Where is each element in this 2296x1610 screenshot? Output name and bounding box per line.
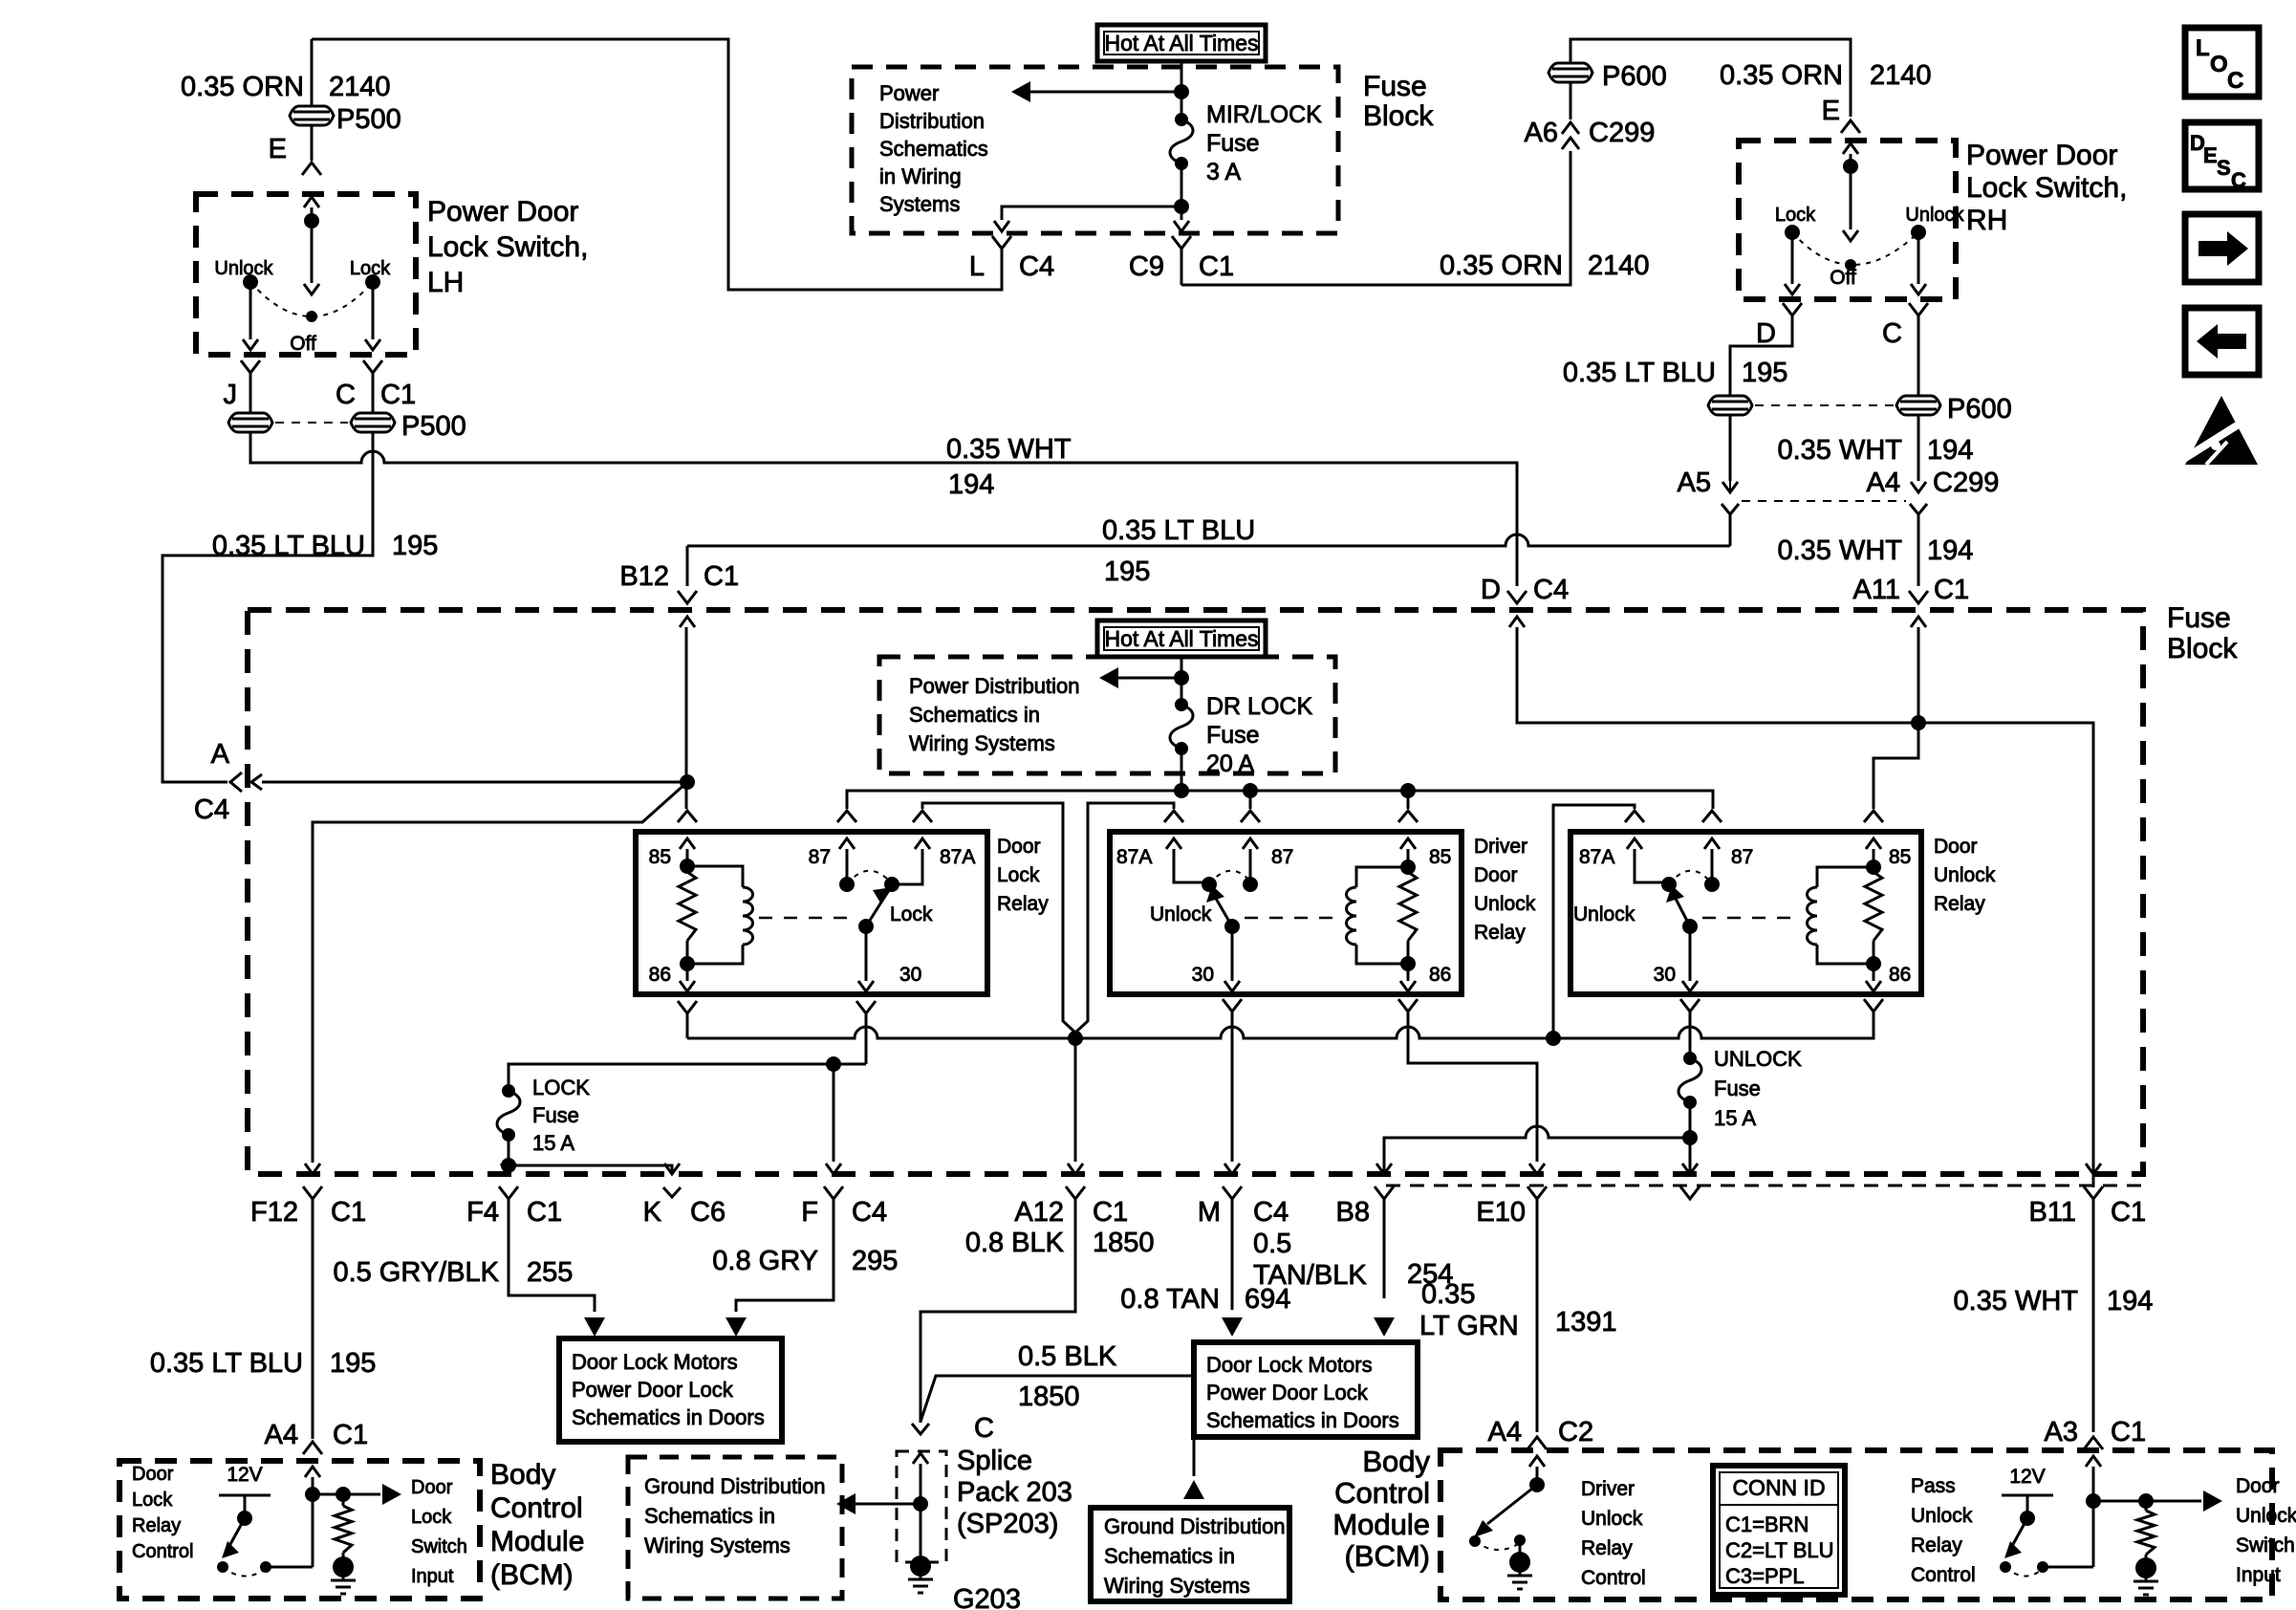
wire DR LOCK fuse to bus bbox=[1180, 749, 1183, 791]
svg-text:C1=BRN: C1=BRN bbox=[1725, 1512, 1809, 1536]
svg-text:Lock: Lock bbox=[1775, 205, 1816, 226]
arrow to Power Distribution Schematics bbox=[1030, 91, 1181, 94]
relay3 resistor bbox=[1873, 867, 1875, 872]
Hot At All Times box (second) bbox=[1097, 620, 1266, 657]
relay1 resistor bbox=[686, 866, 689, 872]
wire from P600 C down to C299 A4 bbox=[1917, 415, 1920, 481]
svg-text:Door Lock Motors: Door Lock Motors bbox=[1206, 1353, 1373, 1377]
svg-text:F12: F12 bbox=[250, 1197, 298, 1228]
svg-text:0.35 WHT: 0.35 WHT bbox=[1953, 1286, 2078, 1316]
svg-text:Module: Module bbox=[490, 1526, 584, 1557]
svg-text:in Wiring: in Wiring bbox=[879, 164, 962, 188]
svg-text:194: 194 bbox=[2107, 1286, 2153, 1316]
svg-text:C: C bbox=[1882, 318, 1902, 349]
wire UNLOCK fuse output junction bbox=[1689, 1102, 1692, 1138]
svg-text:D: D bbox=[1756, 318, 1776, 349]
right BCM driver unlock entry arrow bbox=[1529, 1456, 1545, 1467]
svg-text:Schematics in: Schematics in bbox=[644, 1504, 775, 1528]
relay1 pin 87 arrow bbox=[839, 838, 855, 849]
svg-text:C9: C9 bbox=[1129, 251, 1164, 282]
svg-text:C299: C299 bbox=[1933, 468, 1999, 498]
svg-text:Schematics in Doors: Schematics in Doors bbox=[572, 1405, 765, 1429]
svg-text:Ground Distribution: Ground Distribution bbox=[1104, 1514, 1286, 1538]
wire bus to driver unlock relay 87 bbox=[1249, 791, 1252, 809]
svg-text:CONN ID: CONN ID bbox=[1732, 1475, 1825, 1500]
svg-text:0.35 LT BLU: 0.35 LT BLU bbox=[212, 531, 365, 561]
svg-text:195: 195 bbox=[392, 531, 438, 561]
wire motor node merge to bus A bbox=[1074, 1033, 1077, 1038]
svg-text:85: 85 bbox=[1889, 846, 1911, 868]
svg-text:C2=LT BLU: C2=LT BLU bbox=[1725, 1538, 1834, 1562]
relay feed bus from DR LOCK fuse bbox=[847, 791, 1713, 809]
svg-text:DR LOCK: DR LOCK bbox=[1206, 693, 1312, 720]
svg-text:Switch: Switch bbox=[411, 1536, 467, 1557]
svg-text:C1: C1 bbox=[1093, 1197, 1128, 1228]
relay2 terminal 87A fork bbox=[1164, 811, 1183, 822]
svg-text:Schematics in: Schematics in bbox=[909, 703, 1040, 727]
svg-text:UNLOCK: UNLOCK bbox=[1714, 1047, 1802, 1071]
svg-text:M: M bbox=[1198, 1197, 1221, 1228]
svg-text:87: 87 bbox=[1731, 846, 1753, 868]
RH switch Lock output arrow bbox=[1791, 232, 1794, 284]
svg-text:Body: Body bbox=[490, 1459, 555, 1490]
wire A3 node to switch input resistor bbox=[2093, 1500, 2146, 1503]
svg-text:Power Door: Power Door bbox=[1966, 140, 2117, 171]
svg-text:S: S bbox=[2217, 156, 2231, 180]
svg-text:0.5: 0.5 bbox=[1253, 1229, 1291, 1259]
driver unlock relay control switch bbox=[1529, 1477, 1545, 1492]
RH switch Unlock output arrow bbox=[1917, 232, 1920, 284]
svg-text:A3: A3 bbox=[2045, 1417, 2078, 1447]
relay1 terminal 85 fork bbox=[678, 811, 697, 822]
Power Door Lock Switch RH dashed box bbox=[1739, 141, 1956, 299]
svg-text:Wiring Systems: Wiring Systems bbox=[1104, 1574, 1250, 1598]
svg-text:D: D bbox=[1481, 575, 1501, 605]
wire B12 down to relay coil 85 bbox=[680, 617, 695, 627]
Body Control Module left dashed box bbox=[119, 1461, 480, 1599]
DR LOCK fuse dashed box bbox=[879, 657, 1335, 773]
wire ORN 2140 from fuse block C9 to RH switch E bbox=[1181, 39, 1851, 285]
Power Door Lock Switch LH dashed box bbox=[196, 194, 416, 355]
svg-text:Door: Door bbox=[997, 836, 1041, 858]
junction dot above C9 terminal bbox=[1174, 199, 1189, 214]
terminal C of RH switch bbox=[1909, 303, 1928, 315]
relay1 switch dashed arc bbox=[847, 871, 890, 884]
terminal A11 C1 fork bbox=[1909, 591, 1928, 603]
svg-text:P600: P600 bbox=[1602, 61, 1667, 92]
svg-text:LT GRN: LT GRN bbox=[1419, 1311, 1519, 1341]
svg-text:Driver: Driver bbox=[1474, 836, 1527, 858]
svg-text:C4: C4 bbox=[852, 1197, 887, 1228]
wire splice to ground G203 bbox=[920, 1504, 922, 1556]
UNLOCK fuse feed from relay3 30 bbox=[1689, 1056, 1692, 1058]
connector grommet P500 pair (J side) bbox=[228, 413, 272, 432]
relay2 terminal 87 fork bbox=[1241, 811, 1260, 822]
svg-text:B8: B8 bbox=[1336, 1197, 1370, 1228]
svg-text:Schematics in: Schematics in bbox=[1104, 1544, 1235, 1568]
svg-text:L: L bbox=[2196, 35, 2210, 61]
Door Lock Motors reference box (right) bbox=[1194, 1342, 1418, 1437]
svg-text:F4: F4 bbox=[466, 1197, 499, 1228]
svg-text:C: C bbox=[974, 1413, 994, 1444]
wire LT BLU 195 from B12 to A5 (with hop over D wire) bbox=[687, 534, 1730, 546]
svg-text:Lock: Lock bbox=[890, 903, 933, 925]
svg-text:0.35 LT BLU: 0.35 LT BLU bbox=[150, 1348, 303, 1379]
junction dot at A11/D node bbox=[1911, 715, 1926, 730]
svg-text:LH: LH bbox=[427, 267, 464, 298]
RH switch Off dashed arc and dot bbox=[1792, 232, 1918, 265]
Fuse Block main dashed box bbox=[248, 610, 2143, 1174]
svg-text:Systems: Systems bbox=[879, 192, 960, 216]
svg-text:C4: C4 bbox=[1253, 1197, 1289, 1228]
relay2 switch arm Unlock bbox=[1224, 919, 1240, 934]
svg-text:0.35 WHT: 0.35 WHT bbox=[1777, 535, 1902, 566]
relay3 coil bbox=[1817, 867, 1874, 887]
wire A12 node down to terminal A12 bbox=[1074, 1038, 1077, 1162]
svg-text:Control: Control bbox=[1911, 1564, 1976, 1586]
relay3 pin 30 arrow bbox=[1689, 926, 1692, 981]
svg-text:Relay: Relay bbox=[1934, 893, 1985, 915]
svg-text:(BCM): (BCM) bbox=[1344, 1539, 1430, 1573]
connector grommet P600 pair (D side) bbox=[1708, 396, 1752, 415]
wire A11 down to junction bbox=[1911, 617, 1926, 627]
arrow to Power Distribution Schematics (second) bbox=[1118, 677, 1181, 680]
dashed link between P500 grommets bbox=[275, 422, 348, 424]
terminal J of LH switch bbox=[241, 360, 260, 373]
LH switch Lock output arrow bbox=[372, 282, 375, 339]
relay2 coil to switch dashed link bbox=[1245, 917, 1340, 920]
svg-text:2140: 2140 bbox=[1870, 60, 1932, 91]
svg-text:Wiring Systems: Wiring Systems bbox=[644, 1534, 791, 1557]
svg-text:C1: C1 bbox=[380, 380, 416, 410]
svg-text:0.5 BLK: 0.5 BLK bbox=[1018, 1341, 1117, 1372]
Hot At All Times box (top) bbox=[1097, 25, 1266, 61]
relay2 terminal 86 fork bbox=[1398, 999, 1418, 1012]
next arrow box bbox=[2185, 214, 2259, 282]
wire LOCK fuse output bbox=[508, 1135, 510, 1165]
left BCM 12V switch bbox=[219, 1494, 271, 1497]
junction dot at second power distribution branch bbox=[1174, 670, 1189, 685]
terminal A3 C1 into right BCM bbox=[2084, 1437, 2103, 1449]
svg-text:Fuse: Fuse bbox=[1206, 722, 1260, 749]
dashed link C299 bbox=[1742, 500, 1906, 502]
junction dot A3 node bbox=[2086, 1493, 2101, 1509]
svg-text:A4: A4 bbox=[1867, 468, 1900, 498]
junction dot at power distribution branch bbox=[1174, 84, 1189, 99]
relay3 switch arm Unlock bbox=[1682, 919, 1698, 934]
arrow into fuse block edge at C9 bbox=[1180, 207, 1183, 220]
svg-text:C4: C4 bbox=[194, 794, 229, 825]
svg-text:0.5 GRY/BLK: 0.5 GRY/BLK bbox=[333, 1257, 499, 1288]
svg-text:85: 85 bbox=[649, 846, 671, 868]
svg-text:(BCM): (BCM) bbox=[490, 1559, 574, 1591]
svg-text:Fuse: Fuse bbox=[1714, 1077, 1761, 1100]
svg-text:0.35 WHT: 0.35 WHT bbox=[946, 434, 1072, 465]
relay3 terminal 85 fork bbox=[1864, 811, 1883, 822]
svg-text:195: 195 bbox=[1104, 556, 1150, 587]
junction dot splice bbox=[913, 1496, 928, 1512]
svg-text:Lock Switch,: Lock Switch, bbox=[1966, 172, 2127, 204]
junction dot left BCM bbox=[305, 1487, 320, 1502]
svg-text:C1: C1 bbox=[331, 1197, 366, 1228]
svg-text:C3=PPL: C3=PPL bbox=[1725, 1564, 1805, 1588]
svg-text:A5: A5 bbox=[1678, 468, 1711, 498]
wire stub to P500 grommet (LH) bbox=[311, 39, 314, 161]
LH switch Off position dashed arc and dot bbox=[250, 282, 373, 316]
svg-text:C4: C4 bbox=[1019, 251, 1054, 282]
relay3 switch dashed arc bbox=[1669, 871, 1710, 884]
connector grommet P600 pair (C side) bbox=[1896, 396, 1940, 415]
terminal F C4 bbox=[826, 1164, 841, 1174]
svg-text:C1: C1 bbox=[2111, 1417, 2146, 1447]
pass unlock relay control switch bbox=[2002, 1494, 2053, 1497]
svg-text:Relay: Relay bbox=[1911, 1534, 1962, 1556]
svg-text:O: O bbox=[2210, 52, 2228, 77]
svg-text:0.35: 0.35 bbox=[1421, 1279, 1475, 1310]
wire 0.5 BLK 1850 from splice to ground distribution reference bbox=[921, 1376, 1194, 1476]
left BCM switch input resistor bbox=[313, 1493, 343, 1496]
svg-text:Schematics in Doors: Schematics in Doors bbox=[1206, 1408, 1399, 1432]
DR LOCK fuse element bbox=[1180, 678, 1183, 705]
svg-text:Wiring Systems: Wiring Systems bbox=[909, 731, 1055, 755]
terminal F12 C1 bbox=[305, 1164, 320, 1174]
svg-text:Input: Input bbox=[2236, 1564, 2281, 1586]
svg-text:Control: Control bbox=[490, 1492, 583, 1524]
svg-text:Hot At All Times: Hot At All Times bbox=[1104, 626, 1258, 651]
right BCM A3 entry arrow bbox=[2086, 1456, 2101, 1467]
svg-text:L: L bbox=[969, 251, 985, 282]
svg-text:255: 255 bbox=[527, 1257, 573, 1288]
svg-text:Module: Module bbox=[1332, 1508, 1430, 1541]
dashed link between P600 grommets bbox=[1755, 404, 1894, 406]
relay1 coil to switch dashed link bbox=[759, 917, 856, 920]
Door Lock Motors reference box (left) bbox=[559, 1338, 782, 1442]
svg-text:195: 195 bbox=[1742, 358, 1787, 388]
svg-text:C1: C1 bbox=[333, 1420, 368, 1450]
wire WHT 194 from J to fuse block D (with hop over C wire) bbox=[250, 432, 1517, 586]
svg-text:Unlock: Unlock bbox=[1905, 205, 1964, 226]
svg-text:Switch: Switch bbox=[2236, 1534, 2295, 1556]
terminal chevron E of RH switch bbox=[1841, 120, 1860, 133]
svg-text:194: 194 bbox=[948, 469, 994, 500]
arrow entering at A bbox=[251, 774, 262, 790]
svg-text:Lock: Lock bbox=[132, 1490, 173, 1511]
relay2 pin 87A arrow bbox=[1166, 838, 1181, 849]
arrow from ground distribution to splice bbox=[836, 1493, 856, 1514]
terminal F4 C1 bbox=[499, 1186, 518, 1199]
svg-text:B12: B12 bbox=[619, 561, 669, 592]
door unlock switch input output arrow bbox=[2146, 1500, 2201, 1503]
svg-text:C1: C1 bbox=[527, 1197, 562, 1228]
junction dot at F branch bbox=[826, 1056, 841, 1072]
feed wire from second Hot box bbox=[1180, 657, 1183, 678]
svg-text:86: 86 bbox=[1889, 964, 1911, 986]
wire junction to B11 drop bbox=[1918, 723, 2093, 1187]
svg-text:0.8 BLK: 0.8 BLK bbox=[965, 1228, 1065, 1258]
terminal D C4 fork bbox=[1507, 591, 1527, 603]
Door Unlock Relay box bbox=[1570, 832, 1921, 994]
relay1 pin 30 arrow bbox=[865, 926, 868, 981]
svg-text:Lock: Lock bbox=[997, 864, 1040, 886]
C299 connector forks A4 bbox=[1910, 504, 1927, 514]
svg-text:Control: Control bbox=[1334, 1476, 1430, 1510]
svg-text:Splice: Splice bbox=[957, 1446, 1032, 1476]
ground G203 bbox=[910, 1556, 931, 1577]
svg-text:Relay: Relay bbox=[997, 893, 1049, 915]
svg-text:Lock: Lock bbox=[411, 1507, 452, 1528]
svg-text:Door: Door bbox=[132, 1464, 174, 1485]
svg-text:LOCK: LOCK bbox=[532, 1076, 590, 1099]
svg-text:694: 694 bbox=[1245, 1284, 1290, 1315]
left BCM entry arrow bbox=[305, 1467, 320, 1477]
svg-text:Lock Switch,: Lock Switch, bbox=[427, 231, 588, 263]
svg-text:2140: 2140 bbox=[329, 72, 391, 102]
svg-text:E: E bbox=[2203, 143, 2218, 167]
svg-text:C: C bbox=[2227, 68, 2243, 94]
ESD warning symbol bbox=[2185, 396, 2258, 465]
svg-text:Unlock: Unlock bbox=[1474, 893, 1536, 915]
left BCM resistor ground bbox=[333, 1556, 354, 1577]
relay2 terminal 85 fork bbox=[1398, 811, 1418, 822]
svg-text:Unlock: Unlock bbox=[214, 258, 273, 279]
junction dot below B12 bbox=[680, 774, 695, 790]
connector grommet P600 (top right) bbox=[1549, 63, 1592, 82]
svg-text:Fuse: Fuse bbox=[532, 1103, 579, 1127]
svg-text:A11: A11 bbox=[1853, 575, 1900, 605]
Ground Distribution dashed reference box bbox=[628, 1457, 842, 1599]
svg-text:C: C bbox=[2231, 168, 2246, 192]
pass-through terminal A6 C299 bbox=[1562, 122, 1579, 134]
junction dot LOCK fuse output bbox=[501, 1158, 516, 1173]
svg-text:Input: Input bbox=[411, 1566, 454, 1587]
DESC navigation box bbox=[2185, 122, 2259, 189]
junction dot bus at driver unlock relay 87 bbox=[1243, 783, 1258, 798]
C299 connector forks A5 bbox=[1722, 504, 1739, 514]
svg-text:0.35 LT BLU: 0.35 LT BLU bbox=[1563, 358, 1716, 388]
svg-text:3 A: 3 A bbox=[1206, 159, 1241, 185]
svg-text:194: 194 bbox=[1927, 535, 1973, 566]
svg-text:G203: G203 bbox=[953, 1584, 1021, 1610]
terminal E10 bbox=[1529, 1164, 1545, 1174]
thin connector row dashed line bbox=[1386, 1185, 2143, 1187]
CONN ID legend box bbox=[1713, 1466, 1845, 1595]
svg-text:Door: Door bbox=[1474, 864, 1518, 886]
relay2 resistor bbox=[1407, 867, 1410, 872]
svg-text:A12: A12 bbox=[1014, 1197, 1064, 1228]
junction dot UNLOCK fuse output bbox=[1682, 1130, 1698, 1145]
terminal B12 C1 fork bbox=[678, 591, 697, 603]
terminal A C4 fork on left edge bbox=[230, 772, 242, 792]
junction dot bus at fuse bbox=[1174, 783, 1189, 798]
relay1 terminal 30 fork bbox=[856, 1001, 876, 1013]
svg-text:Pack 203: Pack 203 bbox=[957, 1477, 1072, 1508]
svg-text:0.35 LT BLU: 0.35 LT BLU bbox=[1102, 515, 1255, 546]
relay1 switch pivot dot and link to 87A bbox=[884, 877, 899, 892]
svg-text:Schematics: Schematics bbox=[879, 137, 988, 161]
wire relay1 87A up over to motor node bbox=[922, 803, 1075, 1033]
svg-text:C1: C1 bbox=[704, 561, 739, 592]
splice pack entry arrow bbox=[913, 1453, 928, 1464]
Body Control Module right dashed box bbox=[1440, 1450, 2272, 1599]
svg-text:Power Distribution: Power Distribution bbox=[909, 674, 1080, 698]
terminal B11 C1 bbox=[2086, 1164, 2101, 1174]
terminal C of LH switch bbox=[363, 360, 382, 373]
Door Lock Relay box bbox=[636, 832, 987, 994]
wire relay3 87A up over to bus A junction bbox=[1553, 805, 1635, 1038]
terminal D of RH switch bbox=[1783, 303, 1802, 315]
svg-text:Block: Block bbox=[1363, 100, 1434, 132]
svg-text:B11: B11 bbox=[2029, 1197, 2076, 1228]
svg-text:Door Lock Motors: Door Lock Motors bbox=[572, 1350, 738, 1374]
terminal L C4 fork bbox=[992, 236, 1011, 249]
svg-text:87A: 87A bbox=[1579, 846, 1614, 868]
Fuse Block dashed box (top) bbox=[852, 67, 1338, 233]
svg-text:2140: 2140 bbox=[1588, 250, 1650, 281]
svg-text:Unlock: Unlock bbox=[1150, 903, 1212, 925]
relay1 terminal 87A fork bbox=[913, 811, 932, 822]
svg-text:Pass: Pass bbox=[1911, 1475, 1956, 1497]
svg-text:295: 295 bbox=[852, 1246, 898, 1276]
svg-text:Body: Body bbox=[1362, 1445, 1430, 1478]
door unlock switch input ground bbox=[2135, 1557, 2156, 1578]
wire from fuse to junction bbox=[1180, 163, 1183, 207]
svg-text:C2: C2 bbox=[1558, 1417, 1593, 1447]
svg-text:12V: 12V bbox=[2009, 1466, 2045, 1488]
svg-text:A6: A6 bbox=[1525, 118, 1558, 148]
wire relay1 30 to LOCK fuse and terminal F bbox=[509, 1064, 866, 1091]
relay3 pin 87A arrow bbox=[1627, 838, 1642, 849]
Ground Distribution solid reference box bbox=[1091, 1508, 1289, 1601]
relay2 pin 87 arrow bbox=[1243, 838, 1258, 849]
svg-text:0.35 ORN: 0.35 ORN bbox=[1720, 60, 1843, 91]
wire from P600 D down to C299 A5 bbox=[1729, 415, 1732, 481]
svg-text:0.35 ORN: 0.35 ORN bbox=[181, 72, 304, 102]
driver unlock relay control ground bbox=[1509, 1552, 1530, 1573]
svg-text:1850: 1850 bbox=[1093, 1228, 1155, 1258]
jog from junction down to door unlock relay 85 bbox=[1874, 723, 1918, 809]
wire A5 down to LT BLU 195 run bbox=[1729, 514, 1732, 546]
svg-text:K: K bbox=[643, 1197, 662, 1228]
svg-text:Off: Off bbox=[1830, 267, 1856, 289]
previous arrow box bbox=[2185, 308, 2259, 375]
svg-text:E: E bbox=[1822, 96, 1840, 126]
relay2 pin 86 arrow bbox=[1407, 964, 1410, 981]
terminal M C4 bbox=[1224, 1164, 1240, 1174]
svg-text:A4: A4 bbox=[1488, 1417, 1522, 1447]
svg-text:C4: C4 bbox=[1533, 575, 1569, 605]
svg-text:A4: A4 bbox=[265, 1420, 298, 1450]
junction dot bus at driver unlock relay 85 bbox=[1400, 783, 1416, 798]
svg-text:87: 87 bbox=[809, 846, 831, 868]
svg-text:Unlock: Unlock bbox=[1581, 1508, 1643, 1530]
wire bus to driver unlock relay 85 bbox=[1407, 791, 1410, 809]
svg-text:Unlock: Unlock bbox=[1911, 1505, 1973, 1527]
svg-text:30: 30 bbox=[899, 964, 921, 986]
relay3 switch pivot dot bbox=[1661, 877, 1677, 892]
relay1 switch arm Lock bbox=[858, 919, 874, 934]
svg-text:A: A bbox=[211, 739, 230, 770]
svg-text:Power Door Lock: Power Door Lock bbox=[1206, 1381, 1369, 1404]
svg-text:Distribution: Distribution bbox=[879, 109, 985, 133]
svg-text:Door: Door bbox=[2236, 1475, 2280, 1497]
relay3 coil to switch dashed link bbox=[1702, 917, 1801, 920]
svg-text:Relay: Relay bbox=[1581, 1537, 1633, 1559]
svg-text:87A: 87A bbox=[1116, 846, 1152, 868]
relay1 pin 85 arrow bbox=[680, 838, 695, 849]
svg-text:12V: 12V bbox=[227, 1464, 262, 1486]
svg-text:0.8 GRY: 0.8 GRY bbox=[712, 1246, 818, 1276]
svg-text:J: J bbox=[224, 380, 238, 410]
